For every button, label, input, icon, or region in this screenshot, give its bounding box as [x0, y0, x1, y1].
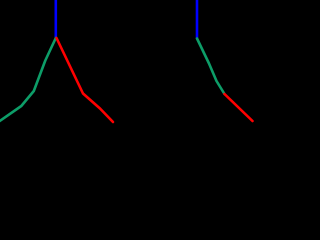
right tree: blue stem — [196, 0, 199, 39]
left tree: red branch — [57, 38, 114, 122]
left tree: green branch — [0, 38, 56, 122]
left tree: blue stem — [54, 0, 57, 38]
right tree: green segment — [197, 39, 225, 95]
right tree: red segment — [225, 94, 253, 121]
